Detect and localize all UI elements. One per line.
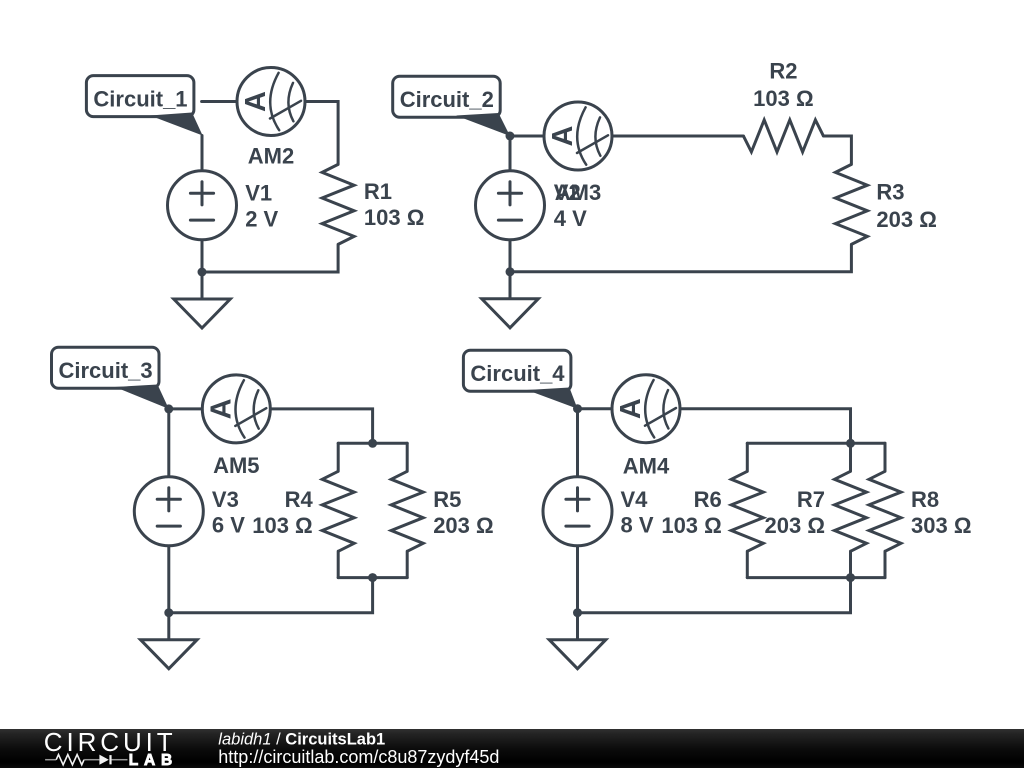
svg-text:303 Ω: 303 Ω: [911, 513, 971, 538]
svg-text:Circuit_1: Circuit_1: [93, 87, 187, 112]
svg-text:R4: R4: [285, 487, 314, 512]
svg-text:R8: R8: [911, 487, 939, 512]
svg-text:http://circuitlab.com/c8u87zyd: http://circuitlab.com/c8u87zydyf45d: [218, 747, 499, 767]
svg-text:103 Ω: 103 Ω: [364, 205, 424, 230]
svg-text:LAB: LAB: [129, 752, 178, 768]
svg-text:labidh1 / CircuitsLab1: labidh1 / CircuitsLab1: [218, 731, 385, 749]
svg-text:R6: R6: [694, 487, 722, 512]
svg-text:103 Ω: 103 Ω: [753, 86, 813, 111]
svg-text:R3: R3: [876, 180, 904, 205]
svg-text:R5: R5: [433, 487, 461, 512]
svg-text:R1: R1: [364, 179, 392, 204]
svg-text:8 V: 8 V: [621, 513, 654, 538]
svg-text:4 V: 4 V: [554, 206, 587, 231]
svg-text:AM2: AM2: [248, 144, 294, 169]
svg-text:203 Ω: 203 Ω: [433, 513, 493, 538]
svg-text:AM5: AM5: [213, 453, 259, 478]
svg-text:R7: R7: [797, 487, 825, 512]
svg-text:AM3: AM3: [555, 180, 601, 205]
svg-text:103 Ω: 103 Ω: [661, 513, 721, 538]
svg-text:Circuit_4: Circuit_4: [470, 361, 565, 386]
svg-text:V1: V1: [245, 181, 272, 206]
svg-text:203 Ω: 203 Ω: [876, 207, 936, 232]
svg-text:Circuit_3: Circuit_3: [59, 358, 153, 383]
svg-text:103 Ω: 103 Ω: [252, 513, 312, 538]
svg-text:Circuit_2: Circuit_2: [400, 87, 494, 112]
svg-text:V3: V3: [212, 487, 239, 512]
svg-text:AM4: AM4: [623, 453, 670, 478]
svg-text:R2: R2: [769, 58, 797, 83]
svg-text:203 Ω: 203 Ω: [765, 513, 825, 538]
svg-text:V4: V4: [621, 487, 649, 512]
svg-text:6 V: 6 V: [212, 513, 245, 538]
svg-text:2 V: 2 V: [245, 207, 278, 232]
